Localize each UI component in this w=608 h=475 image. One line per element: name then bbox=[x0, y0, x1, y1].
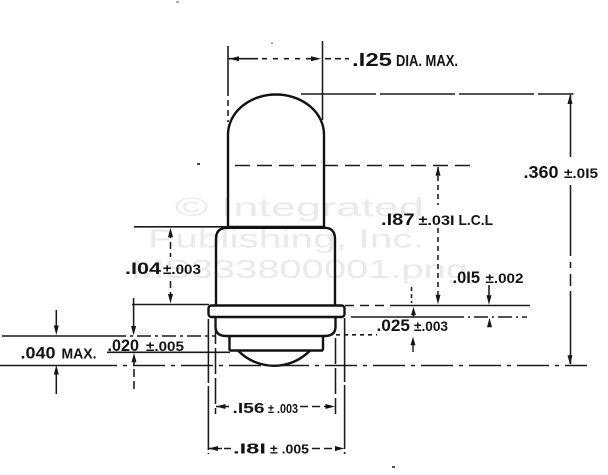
shaft .020 up bbox=[133, 361, 135, 389]
arrow .020 up bbox=[132, 353, 137, 362]
svg-text:.I25DIA. MAX.: .I25DIA. MAX. bbox=[352, 50, 458, 70]
dim line .156 bbox=[216, 406, 229, 408]
filament centerline bbox=[235, 165, 472, 167]
ext line .156 right vertical bbox=[335, 338, 337, 414]
arrow .360 top bbox=[568, 95, 573, 105]
bulb dome and body bbox=[228, 95, 324, 229]
ext line flange-bottom right bbox=[351, 316, 450, 318]
svg-text:.I04±.003: .I04±.003 bbox=[125, 259, 202, 278]
shaft .040 up bbox=[55, 374, 57, 394]
ext line .156 left vertical bbox=[215, 318, 217, 414]
arrow .360 bottom bbox=[568, 355, 573, 365]
dim line .360 vertical bbox=[570, 95, 572, 364]
arrow .187 bottom bbox=[436, 295, 441, 305]
arrow .181 left bbox=[209, 446, 219, 451]
dim line .181 bbox=[209, 448, 232, 450]
arrow .040 down bbox=[54, 326, 59, 336]
ref line top of bulb (.360) bbox=[301, 93, 574, 95]
arrow .104 top bbox=[168, 228, 173, 238]
lens holder band bbox=[230, 336, 324, 351]
arrow .015 up bbox=[487, 318, 492, 328]
dim line .187 vertical bbox=[437, 167, 439, 295]
arrow .125 left bbox=[229, 56, 239, 61]
scan specks bbox=[176, 1, 395, 468]
arrowheads bbox=[54, 56, 573, 451]
arrow .025 lower bbox=[411, 337, 416, 346]
arrow .156 right bbox=[326, 404, 336, 409]
ext line .181 left vertical bbox=[207, 319, 209, 454]
ext line flange-top right bbox=[345, 305, 390, 307]
flange bbox=[209, 306, 345, 318]
ext line band2-bottom left bbox=[2, 335, 112, 337]
ext line band2-bottom right bbox=[336, 334, 377, 336]
ext line .181 right vertical bbox=[344, 318, 346, 454]
ext line bulb left bbox=[227, 46, 229, 90]
band below flange bbox=[216, 317, 336, 336]
arrow .187 top bbox=[436, 166, 441, 176]
shaft .015 arrow bbox=[488, 285, 490, 297]
base skirt bbox=[216, 228, 335, 306]
ref line lens bottom full bbox=[0, 365, 85, 367]
shaft .020 down bbox=[133, 298, 135, 327]
arrow .181 right bbox=[335, 446, 345, 451]
svg-text:.0I5±.002: .0I5±.002 bbox=[453, 269, 524, 287]
ext line lens-holder-bottom left bbox=[107, 351, 230, 353]
lens dome bbox=[238, 351, 310, 366]
arrow .104 bottom bbox=[168, 294, 173, 304]
dim line .125 bbox=[228, 58, 258, 60]
bulb shoulder line bbox=[228, 226, 324, 228]
arrow .125 right bbox=[311, 56, 321, 61]
arrow .020 down bbox=[131, 326, 136, 336]
arrow .025 upper bbox=[411, 307, 416, 316]
svg-text:.020±.005: .020±.005 bbox=[108, 337, 185, 355]
dim line .104 vertical bbox=[170, 231, 172, 295]
svg-text:.I8I± .005: .I8I± .005 bbox=[233, 441, 309, 458]
ext line bulb right bbox=[322, 41, 324, 120]
arrow .040 up bbox=[54, 365, 59, 375]
shaft .040 down bbox=[55, 310, 57, 327]
ext line flange-top left bbox=[132, 304, 209, 306]
arrow .156 left bbox=[216, 404, 226, 409]
shaft .025 upper dashes above flange bbox=[411, 287, 413, 303]
svg-text:.I87±.03IL.C.L: .I87±.03IL.C.L bbox=[381, 210, 493, 229]
arrow .015 down bbox=[487, 295, 492, 305]
ext line shoulder left bbox=[134, 226, 229, 228]
